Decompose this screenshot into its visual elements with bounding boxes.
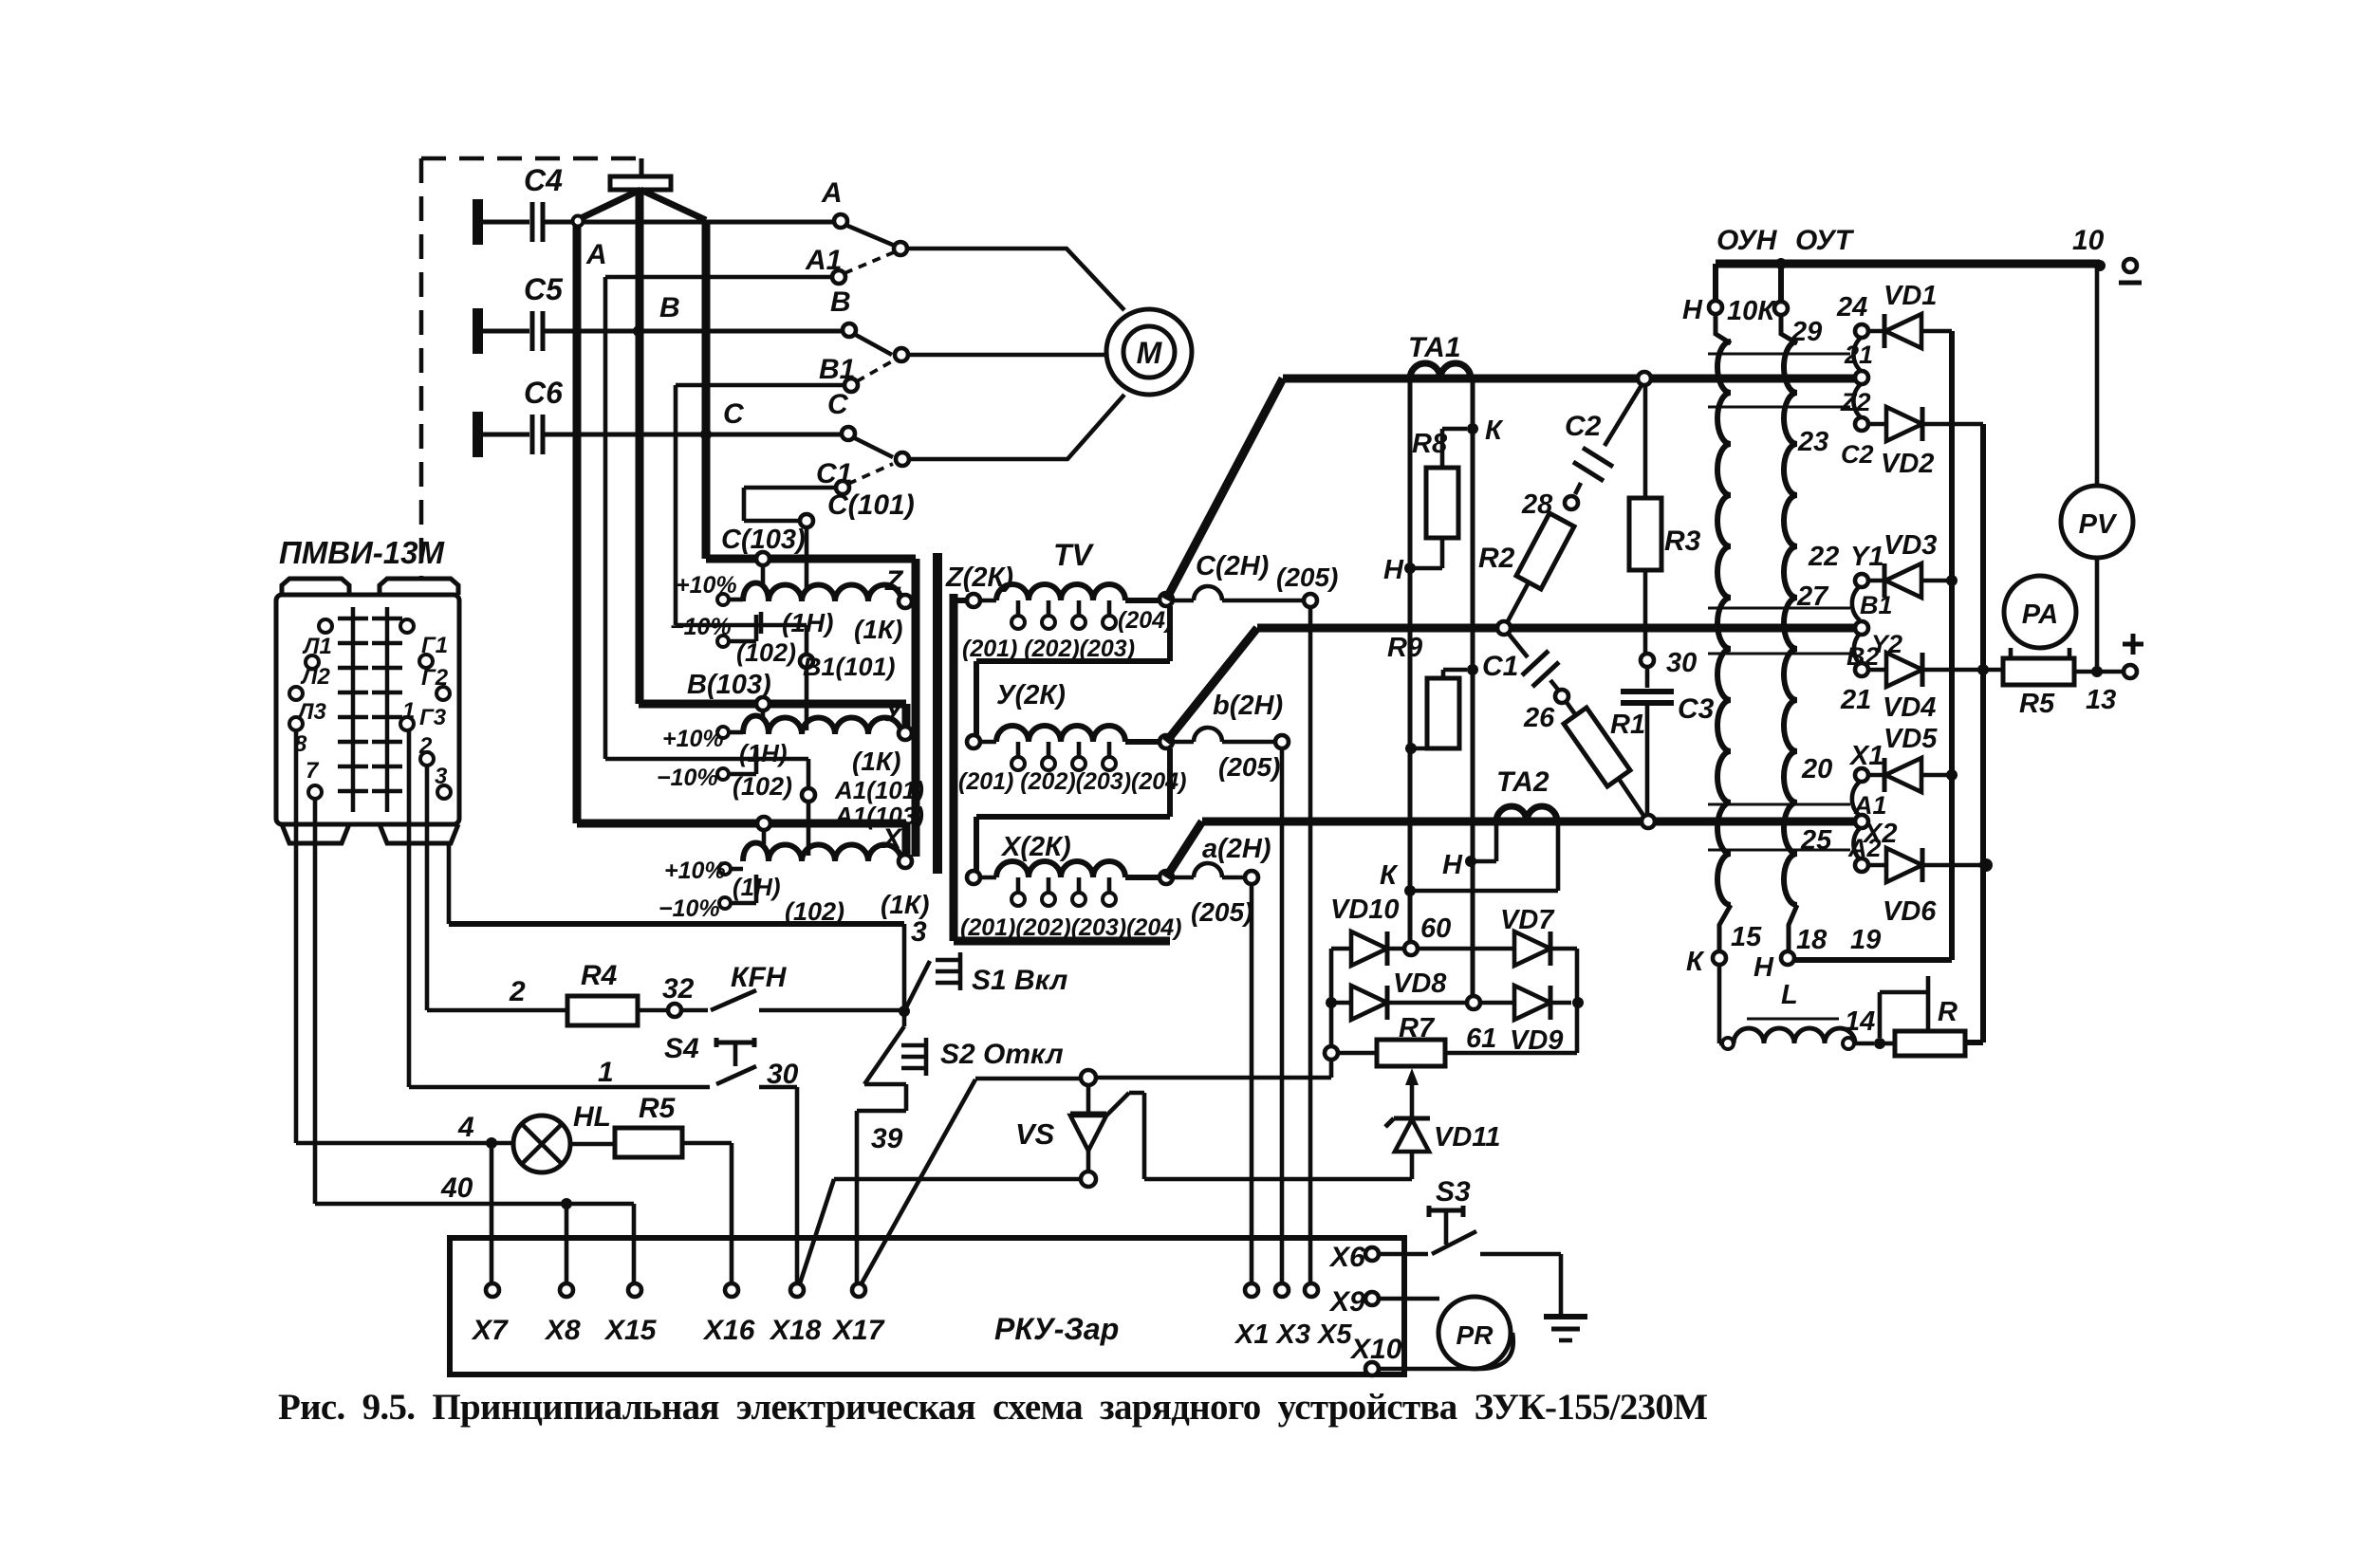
- winding tap lines: [1708, 354, 1850, 850]
- svg-text:Г3: Г3: [419, 705, 447, 730]
- node C1 branch junction: [1467, 664, 1478, 675]
- svg-text:В: В: [830, 286, 851, 318]
- cathode bus 2: [1965, 424, 1983, 1042]
- svg-text:С(101): С(101): [827, 489, 915, 521]
- shunt R5: [2003, 658, 2074, 685]
- svg-text:РV: РV: [2079, 509, 2118, 540]
- svg-text:R5: R5: [639, 1093, 677, 1124]
- wire 3: [449, 921, 904, 927]
- svg-text:РR: РR: [1457, 1320, 1494, 1350]
- ammeter PA: [2004, 576, 2076, 648]
- wire pin8 down: [294, 730, 299, 1143]
- svg-text:29: 29: [1791, 317, 1822, 347]
- svg-text:С2: С2: [1565, 411, 1602, 442]
- bus upper to OUT: [1166, 378, 1856, 600]
- rheostat R: [1895, 1031, 1965, 1056]
- node 30: [1641, 654, 1654, 667]
- wire TA1 left vertical: [1408, 378, 1413, 942]
- node A junction: [573, 216, 584, 227]
- current transformer TA2: [1496, 806, 1557, 821]
- svg-text:(1К): (1К): [854, 615, 902, 644]
- wire phase C vertical: [702, 220, 711, 559]
- terminal X17: [852, 1283, 865, 1297]
- switch B contacts: [854, 334, 892, 355]
- svg-text:Х7: Х7: [471, 1315, 509, 1346]
- wire phase B vertical: [636, 190, 644, 704]
- dashed enclosure boundary: [421, 158, 638, 577]
- svg-text:(1Н): (1Н): [782, 608, 833, 637]
- terminal K OUN: [1713, 951, 1726, 965]
- node 60: [1404, 942, 1418, 955]
- bracket under Y winding: [976, 748, 1170, 871]
- tap +10% phase A: [719, 863, 731, 875]
- switch S3: [1379, 1231, 1476, 1254]
- wire A1 row: [605, 277, 832, 787]
- svg-text:+10%: +10%: [664, 858, 726, 884]
- svg-text:VD11: VD11: [1434, 1122, 1500, 1153]
- svg-text:−10%: −10%: [659, 895, 720, 922]
- svg-text:VD1: VD1: [1883, 281, 1937, 311]
- svg-text:(205): (205): [1218, 752, 1280, 782]
- svg-text:−10%: −10%: [657, 765, 718, 791]
- node wire40 junction: [561, 1198, 572, 1209]
- svg-text:С(2Н): С(2Н): [1196, 551, 1269, 581]
- svg-text:3: 3: [435, 764, 448, 789]
- taps X(201)-(204): [1018, 877, 1109, 893]
- terminal X: [899, 855, 912, 868]
- svg-text:К: К: [1380, 860, 1399, 891]
- lamp HL: [513, 1116, 570, 1172]
- svg-text:Z(2К): Z(2К): [945, 563, 1013, 593]
- node A1(101): [802, 788, 815, 802]
- resistor R9: [1443, 670, 1467, 678]
- tap -10% phase A: [719, 897, 731, 909]
- svg-text:VD5: VD5: [1883, 724, 1938, 754]
- svg-text:1: 1: [598, 1057, 614, 1088]
- node wire4 junction: [486, 1137, 497, 1149]
- node 26: [1555, 690, 1568, 703]
- wire B1 row: [676, 385, 844, 655]
- svg-text:Г2: Г2: [421, 665, 449, 691]
- svg-text:(201) (202)(203): (201) (202)(203): [962, 636, 1135, 662]
- svg-text:(201)(202)(203)(204): (201)(202)(203)(204): [960, 914, 1181, 941]
- svg-text:2: 2: [509, 976, 526, 1007]
- commutator brush bar: [640, 158, 644, 176]
- capacitor C3: [1645, 667, 1650, 688]
- svg-text:А1: А1: [805, 245, 842, 276]
- winding OUT: [1781, 315, 1797, 343]
- svg-text:VD6: VD6: [1883, 896, 1937, 927]
- svg-text:Х(2К): Х(2К): [1000, 832, 1071, 862]
- terminal H OUN: [1713, 264, 1718, 301]
- svg-text:30: 30: [767, 1059, 799, 1090]
- diode VD9: [1480, 1001, 1514, 1005]
- svg-text:Z2: Z2: [1840, 388, 1871, 416]
- resistor R2: [1516, 513, 1574, 589]
- diode VD4: [1868, 668, 1886, 673]
- bracket under Z winding: [976, 606, 1170, 735]
- svg-text:Г1: Г1: [421, 633, 448, 658]
- svg-text:−10%: −10%: [670, 614, 732, 640]
- svg-text:2: 2: [418, 733, 433, 759]
- wire X18 diagonal: [800, 1179, 1081, 1283]
- terminal X7: [486, 1283, 499, 1297]
- terminal Y: [899, 727, 912, 740]
- bracket diode block: [1331, 949, 1577, 1053]
- svg-text:А1: А1: [1853, 791, 1887, 820]
- winding b(2H): [1173, 728, 1275, 742]
- capacitor C4: [473, 199, 483, 245]
- svg-text:25: 25: [1800, 825, 1832, 856]
- resistor R4: [567, 996, 638, 1025]
- svg-text:L: L: [1781, 980, 1798, 1010]
- node A(103): [757, 817, 770, 830]
- svg-text:27: 27: [1796, 581, 1829, 612]
- winding 1H phase A: [743, 843, 901, 862]
- svg-text:С3: С3: [1678, 693, 1715, 725]
- bus OUN/OUT top: [1716, 260, 2100, 268]
- terminal X1 X3 X5: [1245, 1283, 1258, 1297]
- node X junction: [1125, 875, 1160, 880]
- thyristor VS gate: [1106, 1093, 1412, 1179]
- svg-text:10К: 10К: [1727, 296, 1776, 326]
- svg-text:С: С: [827, 389, 849, 420]
- svg-text:61: 61: [1466, 1024, 1496, 1054]
- svg-text:(205): (205): [1191, 897, 1252, 927]
- svg-text:С5: С5: [524, 272, 564, 306]
- terminal X16: [725, 1283, 738, 1297]
- svg-text:(201) (202)(203)(204): (201) (202)(203)(204): [958, 768, 1186, 795]
- wire C1 row: [744, 488, 836, 521]
- winding OUN: [1716, 314, 1731, 343]
- fuse meter PR: [1379, 1297, 1439, 1301]
- resistor R7: [1325, 1046, 1338, 1060]
- svg-text:У(2К): У(2К): [996, 680, 1066, 710]
- svg-text:М: М: [1137, 336, 1163, 370]
- terminal X18: [790, 1283, 804, 1297]
- resistor R8: [1442, 429, 1467, 468]
- wire 1 row: [409, 1085, 710, 1090]
- diode VD8: [1326, 997, 1337, 1008]
- transformer core: [933, 553, 942, 874]
- svg-text:С: С: [723, 398, 745, 430]
- wire VS anode row: [1096, 1060, 1331, 1078]
- svg-text:19: 19: [1850, 925, 1881, 955]
- svg-text:А: А: [821, 177, 843, 209]
- wire to motor: [907, 249, 1124, 459]
- svg-text:20: 20: [1801, 754, 1832, 784]
- resistor R1: [1564, 708, 1630, 786]
- svg-text:А2: А2: [1847, 834, 1882, 862]
- node H upper: [1404, 563, 1416, 574]
- diode VD3: [1868, 579, 1884, 583]
- svg-text:24: 24: [1836, 292, 1867, 323]
- transformer TV primary phase B bus: [639, 704, 906, 727]
- wire pin2 down: [425, 766, 430, 1010]
- wire 4 row: [296, 1141, 513, 1146]
- svg-text:15: 15: [1731, 922, 1762, 952]
- svg-text:14: 14: [1845, 1006, 1875, 1037]
- cathode bus 1: [1794, 331, 1952, 960]
- node K lower: [1404, 885, 1416, 896]
- svg-text:S2 Откл: S2 Откл: [940, 1039, 1064, 1070]
- svg-text:10: 10: [2072, 225, 2105, 256]
- diode VD1: [1868, 329, 1884, 334]
- diode VD10: [1331, 947, 1351, 951]
- zener VD11: [1395, 1119, 1429, 1152]
- svg-text:+10%: +10%: [676, 572, 737, 599]
- svg-text:С1: С1: [816, 458, 852, 489]
- svg-text:С2: С2: [1841, 440, 1874, 469]
- svg-text:Z: Z: [884, 565, 904, 597]
- node H lower: [1465, 856, 1476, 867]
- switch S1: [899, 1005, 910, 1017]
- svg-text:С4: С4: [524, 163, 563, 197]
- svg-text:Х6: Х6: [1328, 1242, 1365, 1273]
- current transformer TA1: [1410, 363, 1471, 378]
- svg-text:3: 3: [911, 916, 927, 948]
- tap -10% phase B: [717, 768, 729, 780]
- motor M: [1106, 309, 1192, 395]
- winding Z(2K): [967, 594, 980, 607]
- svg-text:Н: Н: [1383, 555, 1404, 585]
- svg-text:В1: В1: [1860, 591, 1893, 619]
- node B junction: [633, 325, 644, 337]
- resistor R5 lamp: [615, 1128, 682, 1157]
- svg-text:С1: С1: [1482, 651, 1518, 682]
- svg-text:Y1: Y1: [1850, 542, 1883, 572]
- svg-text:В: В: [659, 292, 680, 323]
- capacitor C1: [1508, 633, 1528, 657]
- node C(101): [800, 514, 813, 527]
- svg-text:VD10: VD10: [1330, 895, 1400, 925]
- winding Y(2K): [967, 735, 980, 748]
- svg-text:С6: С6: [524, 376, 563, 410]
- svg-text:VD2: VD2: [1881, 449, 1934, 479]
- svg-text:23: 23: [1797, 427, 1828, 457]
- wire phase A vertical: [573, 222, 582, 823]
- svg-text:26: 26: [1523, 703, 1555, 733]
- terminal X6: [1365, 1247, 1379, 1261]
- contact 32: [668, 1004, 681, 1017]
- tap group 1 arcs: [1853, 338, 1861, 417]
- svg-text:4: 4: [457, 1112, 474, 1143]
- terminal X9: [1365, 1292, 1379, 1305]
- svg-text:13: 13: [2086, 685, 2116, 715]
- tap group 2 arcs: [1852, 586, 1860, 664]
- node 28: [1565, 496, 1578, 509]
- svg-text:Н: Н: [1753, 952, 1774, 983]
- block RKU-Zar: [450, 1238, 1404, 1374]
- terminal H OUT: [1781, 951, 1794, 965]
- voltmeter PV: [2061, 486, 2133, 558]
- capacitor C5: [473, 308, 483, 354]
- node OUT top junction: [1775, 258, 1787, 269]
- R7 wiper arrow: [1405, 1068, 1419, 1085]
- wire pin1 down: [407, 730, 412, 1087]
- svg-text:18: 18: [1796, 925, 1828, 955]
- svg-text:ТА1: ТА1: [1408, 332, 1461, 363]
- transformer TV primary phase C bus: [706, 559, 916, 857]
- diode VD5: [1868, 773, 1884, 778]
- svg-text:В1(101): В1(101): [803, 653, 896, 681]
- svg-text:(1Н): (1Н): [739, 739, 788, 767]
- winding 1H phase C: [743, 583, 901, 602]
- svg-text:Х8: Х8: [544, 1315, 581, 1346]
- terminal X8: [560, 1283, 573, 1297]
- diode VD6: [1868, 863, 1886, 868]
- svg-text:39: 39: [871, 1123, 903, 1154]
- switch S4: [716, 1044, 756, 1084]
- svg-text:РКУ-Зар: РКУ-Зар: [994, 1312, 1119, 1346]
- node C junction: [700, 429, 712, 440]
- svg-text:a(2Н): a(2Н): [1202, 834, 1271, 864]
- tap -10% phase C: [717, 636, 729, 647]
- taps Y(201)-(204): [1018, 742, 1109, 757]
- svg-text:А: А: [585, 239, 607, 270]
- connector internal contact bars: [338, 607, 402, 812]
- tap group 3 arcs: [1852, 782, 1860, 859]
- svg-text:Л1: Л1: [302, 634, 332, 659]
- svg-text:VD8: VD8: [1393, 968, 1447, 999]
- svg-text:R4: R4: [581, 960, 618, 991]
- wire fan from brush: [577, 190, 706, 220]
- svg-text:Х17: Х17: [831, 1315, 885, 1346]
- svg-text:ТV: ТV: [1053, 538, 1095, 572]
- svg-text:(1Н): (1Н): [733, 873, 781, 901]
- switch A contacts: [845, 225, 895, 246]
- switch C contacts: [853, 437, 893, 457]
- svg-text:(205): (205): [1276, 563, 1338, 592]
- svg-text:7: 7: [306, 758, 320, 784]
- svg-text:1: 1: [402, 698, 415, 724]
- svg-text:С(103): С(103): [721, 525, 806, 555]
- svg-text:Х: Х: [881, 823, 903, 855]
- svg-text:R: R: [1938, 997, 1958, 1027]
- tap +10% phase B: [717, 727, 729, 738]
- node plus terminal: [2091, 666, 2103, 677]
- node Z junction: [1125, 598, 1160, 603]
- ground: [1544, 1314, 1587, 1319]
- taps Z(201)-(204): [1018, 600, 1109, 616]
- node C(103): [756, 552, 770, 565]
- svg-text:R7: R7: [1399, 1013, 1436, 1043]
- terminal Z: [899, 595, 912, 608]
- svg-text:Х10: Х10: [1349, 1334, 1402, 1365]
- svg-text:R9: R9: [1387, 633, 1422, 663]
- svg-text:Х9: Х9: [1328, 1286, 1365, 1318]
- winding a(2H): [1173, 863, 1245, 877]
- wire 40 row: [315, 1204, 634, 1283]
- svg-text:Л3: Л3: [296, 699, 326, 725]
- node C2/R3 junction: [1638, 372, 1651, 385]
- svg-text:ОУН: ОУН: [1716, 225, 1778, 256]
- capacitor C6: [473, 412, 483, 457]
- svg-text:РА: РА: [2022, 600, 2058, 630]
- node B1(101): [800, 655, 813, 668]
- svg-text:32: 32: [662, 973, 695, 1005]
- svg-text:К: К: [1686, 947, 1705, 977]
- svg-text:R5: R5: [2019, 689, 2055, 719]
- svg-text:R1: R1: [1610, 710, 1645, 740]
- svg-text:21: 21: [1844, 341, 1873, 369]
- winding X(2K): [967, 871, 980, 884]
- svg-text:(102): (102): [733, 772, 792, 801]
- svg-text:S1 Вкл: S1 Вкл: [972, 965, 1068, 996]
- svg-text:R8: R8: [1412, 429, 1448, 459]
- svg-text:(1К): (1К): [881, 890, 929, 919]
- tap +10% phase C: [717, 594, 729, 605]
- svg-text:Н: Н: [1442, 850, 1463, 880]
- svg-text:(102): (102): [736, 638, 796, 667]
- svg-text:Х18: Х18: [769, 1315, 822, 1346]
- svg-text:ПМВИ-13М: ПМВИ-13М: [279, 535, 445, 570]
- svg-text:VD4: VD4: [1883, 692, 1936, 723]
- svg-text:ТА2: ТА2: [1496, 766, 1549, 798]
- svg-text:У: У: [883, 696, 905, 728]
- node Y junction: [1125, 739, 1160, 745]
- svg-text:Х15: Х15: [603, 1315, 658, 1346]
- node minus terminal: [2094, 260, 2106, 271]
- svg-text:(1К): (1К): [852, 747, 900, 776]
- svg-text:Х1: Х1: [1848, 741, 1883, 771]
- diode VD2: [1868, 422, 1886, 427]
- node R2/C1 junction: [1497, 621, 1511, 635]
- svg-text:VD7: VD7: [1500, 905, 1555, 935]
- node R1/bus junction: [1642, 815, 1655, 828]
- svg-text:S4: S4: [664, 1033, 699, 1064]
- terminal (205) phase b: [1275, 735, 1289, 748]
- svg-text:НL: НL: [573, 1101, 611, 1133]
- terminal 10K OUT: [1778, 264, 1784, 302]
- svg-text:b(2Н): b(2Н): [1213, 691, 1283, 721]
- wire X17 diagonal: [862, 1079, 1081, 1283]
- terminal X15: [628, 1283, 641, 1297]
- svg-text:60: 60: [1420, 913, 1451, 944]
- svg-text:Л2: Л2: [300, 664, 330, 690]
- thyristor VS: [1081, 1070, 1096, 1085]
- svg-text:+10%: +10%: [662, 726, 724, 752]
- connector pins right: [400, 619, 414, 633]
- relay contact KFH: [681, 990, 904, 1010]
- node K upper: [1467, 423, 1478, 434]
- capacitor C2: [1605, 385, 1642, 446]
- svg-text:VD3: VD3: [1883, 530, 1937, 561]
- winding 1H phase B: [743, 716, 901, 735]
- wire pin7 down: [313, 799, 318, 1204]
- svg-text:Х16: Х16: [702, 1315, 755, 1346]
- svg-text:R2: R2: [1478, 543, 1515, 574]
- svg-text:21: 21: [1840, 685, 1871, 715]
- svg-text:КFН: КFН: [731, 962, 788, 993]
- svg-text:R3: R3: [1664, 526, 1701, 557]
- switch S2: [864, 1026, 904, 1084]
- svg-text:Х1 Х3 Х5: Х1 Х3 Х5: [1234, 1319, 1352, 1350]
- svg-text:(204): (204): [1118, 607, 1173, 634]
- svg-text:30: 30: [1666, 648, 1697, 678]
- svg-text:Н: Н: [1682, 295, 1703, 325]
- bus middle: [1166, 628, 1856, 742]
- bus lower: [1166, 821, 1856, 877]
- svg-text:К: К: [1485, 415, 1504, 446]
- node B(103): [756, 697, 770, 710]
- connector pins left: [319, 619, 332, 633]
- node 61: [1467, 996, 1480, 1009]
- inductor L: [1719, 965, 1721, 1043]
- wire TA1 right vertical: [1471, 378, 1475, 996]
- svg-text:Рис. 9.5. Принципиальная эл: Рис. 9.5. Принципиальная электрическая с…: [278, 1387, 1708, 1428]
- svg-text:22: 22: [1808, 542, 1839, 572]
